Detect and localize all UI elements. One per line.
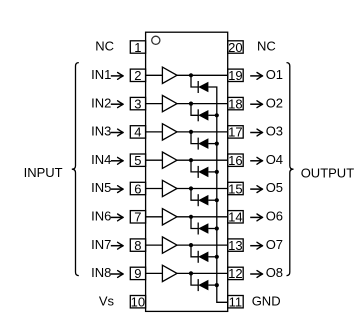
svg-text:19: 19 [228, 68, 242, 83]
svg-text:Vs: Vs [99, 293, 115, 308]
svg-text:OUTPUT: OUTPUT [301, 166, 355, 181]
svg-text:12: 12 [228, 266, 242, 281]
svg-text:20: 20 [228, 40, 242, 55]
svg-text:16: 16 [228, 153, 242, 168]
svg-text:IN6: IN6 [91, 209, 111, 224]
svg-text:8: 8 [134, 238, 141, 253]
svg-text:10: 10 [131, 295, 145, 310]
svg-text:6: 6 [134, 181, 141, 196]
svg-text:14: 14 [228, 210, 242, 225]
svg-text:O5: O5 [266, 180, 283, 195]
svg-text:11: 11 [229, 295, 243, 310]
svg-text:2: 2 [134, 68, 141, 83]
svg-text:18: 18 [228, 96, 242, 111]
svg-text:13: 13 [228, 238, 242, 253]
svg-text:O6: O6 [266, 209, 283, 224]
svg-text:3: 3 [134, 96, 141, 111]
svg-text:15: 15 [228, 181, 242, 196]
svg-text:IN1: IN1 [91, 67, 111, 82]
svg-text:IN3: IN3 [91, 124, 111, 139]
svg-text:IN4: IN4 [91, 152, 111, 167]
svg-text:NC: NC [95, 39, 114, 54]
svg-text:INPUT: INPUT [24, 165, 63, 180]
svg-text:IN7: IN7 [91, 237, 111, 252]
svg-text:IN2: IN2 [91, 95, 111, 110]
svg-text:O3: O3 [266, 124, 283, 139]
svg-text:IN5: IN5 [91, 180, 111, 195]
svg-text:O1: O1 [266, 67, 283, 82]
svg-text:7: 7 [134, 210, 141, 225]
svg-text:5: 5 [134, 153, 141, 168]
svg-text:O2: O2 [266, 95, 283, 110]
svg-text:1: 1 [134, 40, 141, 55]
svg-text:O4: O4 [266, 152, 283, 167]
svg-text:GND: GND [252, 293, 281, 308]
svg-text:NC: NC [257, 39, 276, 54]
svg-text:O8: O8 [266, 265, 283, 280]
svg-text:O7: O7 [266, 237, 283, 252]
svg-text:IN8: IN8 [91, 265, 111, 280]
svg-text:17: 17 [228, 125, 242, 140]
svg-text:4: 4 [134, 125, 141, 140]
svg-text:9: 9 [134, 266, 141, 281]
